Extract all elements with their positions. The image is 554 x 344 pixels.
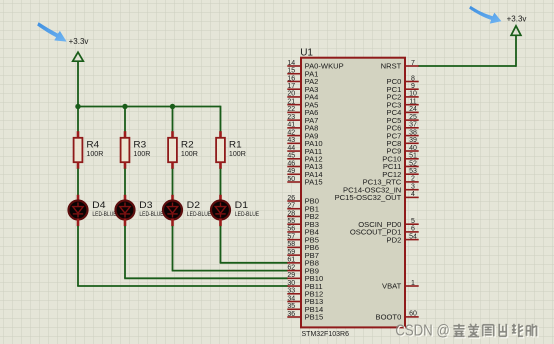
pin 20 PA4 (left)	[287, 91, 318, 102]
pin 21 PA5 (left)	[287, 98, 318, 109]
svg-text:45: 45	[287, 153, 295, 160]
pin 2 PC13_RTC (right)	[363, 176, 419, 187]
pin 40 PC9 (right)	[387, 145, 419, 156]
junction node on +3.3v rail at column 2	[170, 104, 175, 109]
pin 6 OSCOUT_PD1 (right)	[350, 226, 419, 237]
svg-text:34: 34	[287, 295, 295, 302]
svg-text:60: 60	[409, 311, 417, 318]
wire D2 cathode down to row	[172, 226, 174, 271]
LED D2 body circle	[163, 201, 182, 220]
resistor R4 bottom lead	[77, 162, 80, 169]
resistor R3 bottom lead	[124, 162, 127, 169]
wire from rail down to R2 top lead	[172, 107, 174, 132]
svg-text:LED-BLUE: LED-BLUE	[235, 211, 260, 218]
svg-text:NRST: NRST	[381, 62, 402, 71]
pin 38 PC7 (right)	[387, 129, 419, 140]
pin 45 PA12 (left)	[287, 153, 322, 164]
svg-text:10: 10	[409, 91, 417, 98]
svg-text:46: 46	[287, 160, 295, 167]
svg-text:6: 6	[411, 226, 415, 233]
svg-text:4: 4	[411, 191, 415, 198]
svg-text:2: 2	[411, 176, 415, 183]
svg-text:52: 52	[409, 160, 417, 167]
pin 60 BOOT0 (right)	[376, 311, 419, 322]
svg-text:38: 38	[409, 129, 417, 136]
pin 52 PC11 (right)	[383, 160, 419, 171]
pin 11 PC3 (right)	[387, 99, 419, 110]
svg-text:R2: R2	[181, 139, 194, 149]
svg-text:15: 15	[287, 68, 295, 75]
svg-text:PC15-OSC32_OUT: PC15-OSC32_OUT	[335, 193, 402, 202]
resistor R1 body	[216, 138, 225, 162]
svg-text:29: 29	[287, 272, 295, 279]
wire D4 row to MCU pin	[77, 285, 288, 287]
pin 4 PC15-OSC32_OUT (right)	[335, 191, 419, 202]
junction node on +3.3v rail at column 3	[122, 104, 127, 109]
pin 61 PB8 (left)	[287, 257, 319, 268]
pin 34 PB13 (left)	[287, 295, 323, 306]
pin 8 PC0 (right)	[387, 75, 419, 86]
svg-text:42: 42	[287, 129, 295, 136]
pin 22 PA6 (left)	[287, 106, 318, 117]
LED D2 top lead	[171, 195, 174, 202]
svg-text:23: 23	[287, 114, 295, 121]
power symbol +3.3v (right)	[511, 26, 521, 36]
pin 44 PA11 (left)	[287, 145, 322, 156]
svg-text:39: 39	[409, 137, 417, 144]
wire from rail down to R4 top lead	[77, 107, 79, 132]
pin 51 PC10 (right)	[382, 153, 418, 164]
MCU U1 body	[301, 58, 405, 328]
pin 59 PB7 (left)	[287, 249, 319, 260]
svg-text:BOOT0: BOOT0	[376, 313, 402, 322]
svg-text:49: 49	[287, 168, 295, 175]
LED D2 bottom lead	[171, 219, 174, 227]
svg-text:7: 7	[411, 60, 415, 67]
wire D3 cathode down to row	[124, 226, 126, 278]
wire R1 column: rail corner down to R1 top lead	[220, 106, 222, 132]
pin 35 PB14 (left)	[287, 303, 323, 314]
svg-text:55: 55	[287, 218, 295, 225]
pin 5 OSCIN_PD0 (right)	[358, 218, 418, 229]
pin 15 PA1 (left)	[287, 68, 318, 79]
wire NRST to +3.3v: vertical riser	[515, 35, 517, 67]
svg-text:30: 30	[287, 280, 295, 287]
pin 41 PA8 (left)	[287, 122, 318, 133]
resistor R1 top lead	[219, 131, 222, 138]
wire D4 cathode down to row	[77, 226, 79, 286]
svg-text:27: 27	[287, 203, 295, 210]
svg-text:61: 61	[287, 257, 295, 264]
LED D1 diode symbol	[215, 203, 225, 218]
resistor R3 top lead	[124, 131, 127, 138]
svg-text:3: 3	[411, 184, 415, 191]
svg-text:33: 33	[287, 288, 295, 295]
pin 57 PB5 (left)	[287, 233, 319, 244]
svg-text:58: 58	[287, 241, 295, 248]
wire R2 to D2	[172, 169, 174, 196]
svg-text:1: 1	[411, 280, 415, 287]
wire D1 row to MCU pin	[220, 262, 288, 264]
svg-text:35: 35	[287, 303, 295, 310]
pin 27 PB1 (left)	[287, 203, 319, 214]
svg-text:36: 36	[287, 311, 295, 318]
junction node on +3.3v rail at column 4	[75, 104, 80, 109]
pin 30 PB11 (left)	[287, 280, 322, 291]
wire D2 row to MCU pin	[172, 270, 288, 272]
svg-text:100R: 100R	[86, 151, 103, 158]
svg-text:100R: 100R	[181, 151, 198, 158]
svg-text:25: 25	[409, 114, 417, 121]
svg-text:17: 17	[287, 83, 295, 90]
LED D2 diode symbol	[167, 203, 177, 218]
pin 55 PB3 (left)	[287, 218, 319, 229]
power symbol +3.3v (left)	[73, 52, 84, 61]
svg-text:LED-BLUE: LED-BLUE	[92, 211, 117, 218]
annotation blue arrow (top-right)	[469, 6, 501, 24]
LED D4 diode symbol	[73, 203, 83, 218]
LED D3 diode symbol	[120, 203, 130, 218]
LED D3 body circle	[116, 201, 135, 220]
LED D4 bottom lead	[77, 219, 80, 227]
pin 9 PC1 (right)	[387, 83, 419, 94]
svg-text:22: 22	[287, 106, 295, 113]
wire R4 to D4	[77, 169, 79, 196]
LED D3 bottom lead	[124, 219, 127, 227]
svg-text:U1: U1	[300, 47, 313, 58]
svg-text:D4: D4	[92, 200, 105, 210]
svg-text:100R: 100R	[133, 151, 150, 158]
pin 42 PA9 (left)	[287, 129, 318, 140]
svg-text:26: 26	[287, 195, 295, 202]
svg-text:R3: R3	[133, 139, 146, 149]
svg-text:D3: D3	[139, 200, 152, 210]
svg-text:24: 24	[409, 106, 417, 113]
svg-text:57: 57	[287, 233, 295, 240]
pin 33 PB12 (left)	[287, 288, 323, 299]
pin 10 PC2 (right)	[387, 91, 419, 102]
pin 39 PC8 (right)	[387, 137, 419, 148]
svg-text:44: 44	[287, 145, 295, 152]
svg-text:9: 9	[411, 83, 415, 90]
pin 58 PB6 (left)	[287, 241, 319, 252]
LED D1 top lead	[219, 195, 222, 202]
svg-text:11: 11	[409, 99, 416, 106]
pin 23 PA7 (left)	[287, 114, 318, 125]
pin 43 PA10 (left)	[287, 137, 322, 148]
svg-text:28: 28	[287, 210, 295, 217]
wire D1 cathode down to row	[220, 226, 222, 263]
wire NRST to +3.3v: horizontal	[418, 65, 516, 67]
svg-text:14: 14	[287, 60, 295, 67]
svg-text:LED-BLUE: LED-BLUE	[139, 211, 164, 218]
wire horizontal +3.3v rail bus	[77, 106, 220, 108]
svg-text:50: 50	[287, 176, 295, 183]
svg-text:41: 41	[287, 122, 295, 129]
wire R3 to D3	[124, 169, 126, 196]
resistor R4 body	[74, 138, 83, 162]
annotation blue arrow (top-left)	[37, 22, 66, 41]
LED D1 body circle	[211, 201, 230, 220]
svg-text:20: 20	[287, 91, 295, 98]
svg-text:D2: D2	[187, 200, 200, 210]
pin 62 PB9 (left)	[287, 264, 319, 275]
svg-text:D1: D1	[235, 200, 248, 210]
svg-text:62: 62	[287, 264, 295, 271]
svg-text:8: 8	[411, 75, 415, 82]
svg-text:51: 51	[409, 153, 417, 160]
svg-text:R1: R1	[229, 139, 242, 149]
power net +3.3v left: vertical wire from power symbol to rail	[77, 61, 79, 106]
wire D3 row to MCU pin	[124, 277, 288, 279]
pin 46 PA13 (left)	[287, 160, 322, 171]
LED D4 top lead	[77, 195, 80, 202]
pin 28 PB2 (left)	[287, 210, 319, 221]
pin 7 NRST (right)	[381, 60, 419, 71]
svg-text:37: 37	[409, 122, 417, 129]
pin 1 VBAT (right)	[382, 280, 419, 291]
resistor R3 body	[121, 138, 130, 162]
svg-text:STM32F103R6: STM32F103R6	[302, 331, 350, 338]
svg-text:54: 54	[409, 233, 417, 240]
resistor R4 top lead	[77, 131, 80, 138]
pin 53 PC12 (right)	[382, 168, 418, 179]
svg-text:R4: R4	[86, 139, 99, 149]
pin 36 PB15 (left)	[287, 311, 323, 322]
svg-text:CSDN @: CSDN @	[395, 322, 450, 339]
pin 54 PD2 (right)	[387, 233, 419, 244]
svg-text:5: 5	[411, 218, 415, 225]
svg-text:56: 56	[287, 226, 295, 233]
pin 37 PC6 (right)	[387, 122, 419, 133]
pin 50 PA15 (left)	[287, 176, 322, 187]
wire from rail down to R3 top lead	[124, 107, 126, 132]
svg-text:PD2: PD2	[387, 235, 402, 244]
pin 29 PB10 (left)	[287, 272, 323, 283]
svg-text:+3.3v: +3.3v	[507, 14, 527, 23]
svg-text:53: 53	[409, 168, 417, 175]
svg-text:59: 59	[287, 249, 295, 256]
svg-text:21: 21	[287, 98, 295, 105]
resistor R2 body	[168, 138, 177, 162]
svg-text:PB15: PB15	[305, 313, 324, 322]
pin 17 PA3 (left)	[287, 83, 318, 94]
LED D3 top lead	[124, 195, 127, 202]
LED D1 bottom lead	[219, 219, 222, 227]
svg-text:VBAT: VBAT	[382, 282, 402, 291]
watermark hanzi glyphs (annotation)	[455, 325, 466, 338]
svg-text:+3.3v: +3.3v	[69, 37, 89, 46]
resistor R2 top lead	[171, 131, 174, 138]
pin 56 PB4 (left)	[287, 226, 319, 237]
pin 26 PB0 (left)	[287, 195, 319, 206]
svg-text:16: 16	[287, 75, 295, 82]
pin 25 PC5 (right)	[387, 114, 419, 125]
pin 3 PC14-OSC32_IN (right)	[343, 184, 419, 195]
svg-text:43: 43	[287, 137, 295, 144]
pin 14 PA0-WKUP (left)	[287, 60, 343, 71]
svg-text:LED-BLUE: LED-BLUE	[187, 211, 212, 218]
resistor R2 bottom lead	[171, 162, 174, 169]
LED D4 body circle	[69, 201, 88, 220]
svg-text:PA15: PA15	[305, 178, 323, 187]
svg-text:100R: 100R	[229, 151, 246, 158]
pin 16 PA2 (left)	[287, 75, 318, 86]
pin 49 PA14 (left)	[287, 168, 322, 179]
resistor R1 bottom lead	[219, 162, 222, 169]
wire R1 to D1	[220, 169, 222, 196]
svg-text:40: 40	[409, 145, 417, 152]
pin 24 PC4 (right)	[387, 106, 419, 117]
